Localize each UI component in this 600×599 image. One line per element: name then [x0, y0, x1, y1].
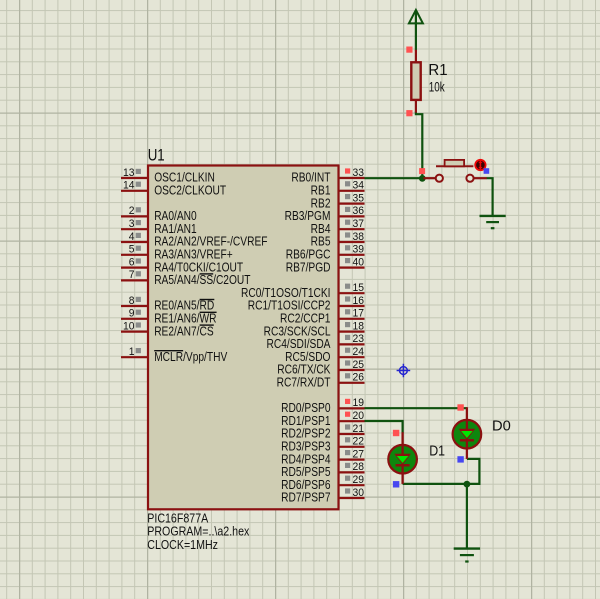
- svg-text:4: 4: [129, 231, 135, 243]
- svg-text:RB2: RB2: [311, 197, 331, 210]
- svg-text:U1: U1: [148, 147, 165, 165]
- pin 26 end square: [345, 373, 350, 378]
- pin 25 end square: [345, 360, 350, 365]
- wire power arrow to R1 top: [415, 22, 417, 51]
- pin 38 end square: [345, 232, 350, 237]
- wire R1 bottom to node A (jog): [416, 112, 422, 179]
- IC U1 PIC16F877A body: [148, 166, 339, 510]
- svg-text:6: 6: [129, 256, 135, 268]
- svg-text:RA2/AN2/VREF-/CVREF: RA2/AN2/VREF-/CVREF: [154, 236, 267, 249]
- svg-text:RD0/PSP0: RD0/PSP0: [281, 402, 330, 415]
- svg-text:CLOCK=1MHz: CLOCK=1MHz: [147, 537, 218, 552]
- svg-text:28: 28: [353, 461, 365, 473]
- svg-text:RA5/AN4/SS/C2OUT: RA5/AN4/SS/C2OUT: [154, 274, 250, 287]
- pin 40 stub (right): [339, 267, 365, 269]
- node B junction dot: [464, 481, 471, 488]
- svg-text:26: 26: [353, 371, 365, 383]
- svg-text:RD3/PSP3: RD3/PSP3: [281, 441, 330, 454]
- svg-text:RB1: RB1: [311, 185, 331, 198]
- pin 35 stub (right): [339, 203, 365, 205]
- svg-text:17: 17: [353, 307, 365, 319]
- svg-text:18: 18: [353, 320, 365, 332]
- svg-text:RD5/PSP5: RD5/PSP5: [281, 466, 330, 479]
- pin 34 end square: [345, 181, 350, 186]
- pin 10 stub (left): [121, 331, 148, 333]
- pin 34 stub (right): [339, 190, 365, 192]
- svg-text:RC5/SDO: RC5/SDO: [285, 351, 330, 364]
- pin 16 stub (right): [339, 305, 365, 307]
- svg-text:2: 2: [129, 205, 135, 217]
- pin 33 stub (right): [339, 177, 365, 179]
- svg-text:RB5: RB5: [311, 236, 331, 249]
- pin 14 stub (left): [121, 190, 148, 192]
- svg-text:RA3/AN3/VREF+: RA3/AN3/VREF+: [154, 249, 233, 262]
- svg-text:27: 27: [353, 448, 365, 460]
- button interactive actuator icon: [475, 160, 485, 170]
- pin 3 stub (left): [121, 228, 148, 230]
- svg-text:RC2/CCP1: RC2/CCP1: [280, 313, 330, 326]
- svg-text:36: 36: [353, 205, 365, 217]
- wire node B to ground GND2: [466, 484, 468, 549]
- pin 20 end square: [345, 412, 350, 417]
- pin 15 stub (right): [339, 292, 365, 294]
- wire button right terminal to ground GND1: [487, 178, 493, 215]
- pin 40 end square: [345, 258, 350, 263]
- ground GND2: [454, 549, 480, 562]
- pin 2 stub (left): [121, 215, 148, 217]
- svg-text:RD4/PSP4: RD4/PSP4: [281, 453, 331, 466]
- svg-text:20: 20: [353, 410, 365, 422]
- svg-text:RC1/T1OSI/CCP2: RC1/T1OSI/CCP2: [248, 300, 331, 313]
- pin 19 stub (right): [339, 407, 365, 409]
- pin 17 end square: [345, 309, 350, 314]
- pin 6 stub (left): [121, 267, 148, 269]
- svg-text:RC6/TX/CK: RC6/TX/CK: [277, 364, 331, 377]
- D0 origin handle (red): [457, 404, 463, 410]
- svg-text:30: 30: [353, 487, 365, 499]
- pin 24 end square: [345, 348, 350, 353]
- svg-text:40: 40: [353, 256, 365, 268]
- resistor R1: [411, 50, 420, 113]
- svg-text:13: 13: [123, 167, 135, 179]
- pin 15 end square: [345, 284, 350, 289]
- pin 21 stub (right): [339, 433, 365, 435]
- pin 13 end square: [136, 169, 141, 174]
- pin 21 end square: [345, 424, 350, 429]
- pin 7 end square: [136, 271, 141, 276]
- svg-text:1: 1: [129, 346, 135, 358]
- svg-text:10k: 10k: [429, 80, 445, 95]
- U1 part/program/clock annotation: [147, 510, 249, 552]
- pin 7 stub (left): [121, 279, 148, 281]
- svg-text:21: 21: [353, 423, 365, 435]
- pin 24 stub (right): [339, 356, 365, 358]
- pin 5 end square: [136, 246, 141, 251]
- LED D0: [453, 407, 482, 459]
- pin 4 stub (left): [121, 241, 148, 243]
- svg-text:OSC1/CLKIN: OSC1/CLKIN: [154, 172, 215, 185]
- svg-text:38: 38: [353, 231, 365, 243]
- svg-text:RB0/INT: RB0/INT: [291, 172, 330, 185]
- pin 23 end square: [345, 335, 350, 340]
- svg-text:RE1/AN6/WR: RE1/AN6/WR: [154, 313, 216, 326]
- pin 28 stub (right): [339, 471, 365, 473]
- pin 17 stub (right): [339, 318, 365, 320]
- svg-text:RB6/PGC: RB6/PGC: [286, 249, 331, 262]
- svg-text:RC0/T1OSO/T1CKI: RC0/T1OSO/T1CKI: [241, 287, 331, 300]
- pin 8 stub (left): [121, 305, 148, 307]
- pin 26 stub (right): [339, 382, 365, 384]
- svg-text:39: 39: [353, 243, 365, 255]
- svg-text:RE2/AN7/CS: RE2/AN7/CS: [154, 325, 214, 338]
- pin 4 end square: [136, 233, 141, 238]
- svg-text:16: 16: [353, 295, 365, 307]
- svg-text:15: 15: [353, 282, 365, 294]
- svg-text:RC4/SDI/SDA: RC4/SDI/SDA: [266, 338, 330, 351]
- svg-text:RD7/PSP7: RD7/PSP7: [281, 492, 330, 505]
- svg-text:24: 24: [353, 346, 365, 358]
- pin 1 end square: [136, 348, 141, 353]
- svg-text:10: 10: [123, 320, 135, 332]
- svg-text:D1: D1: [429, 443, 445, 459]
- pin 29 end square: [345, 476, 350, 481]
- node A junction dot: [419, 175, 426, 182]
- wire node B to LED D1 cathode: [403, 483, 467, 485]
- wire pin RD1/PSP1 to LED D1 anode: [365, 421, 403, 433]
- pin 29 stub (right): [339, 484, 365, 486]
- pin 27 stub (right): [339, 459, 365, 461]
- svg-text:OSC2/CLKOUT: OSC2/CLKOUT: [154, 185, 226, 198]
- svg-text:33: 33: [353, 167, 365, 179]
- pin 35 end square: [345, 194, 350, 199]
- svg-text:RB4: RB4: [311, 223, 331, 236]
- pin 39 end square: [345, 245, 350, 250]
- U1 left pin names: [154, 172, 267, 364]
- pin 19 end square: [345, 399, 350, 404]
- svg-text:RD6/PSP6: RD6/PSP6: [281, 479, 330, 492]
- svg-text:3: 3: [129, 218, 135, 230]
- pin 18 end square: [345, 322, 350, 327]
- svg-text:22: 22: [353, 435, 365, 447]
- svg-text:37: 37: [353, 218, 365, 230]
- svg-text:23: 23: [353, 333, 365, 345]
- pin 6 end square: [136, 258, 141, 263]
- pin 33 end square: [345, 168, 350, 173]
- pin 22 end square: [345, 437, 350, 442]
- svg-text:RA0/AN0: RA0/AN0: [154, 210, 197, 223]
- svg-text:RD2/PSP2: RD2/PSP2: [281, 428, 330, 441]
- pin 2 end square: [136, 207, 141, 212]
- D0 handle (blue): [457, 456, 463, 462]
- pin 1 stub (left): [121, 356, 148, 358]
- svg-text:RB7/PGD: RB7/PGD: [286, 261, 331, 274]
- pin 3 end square: [136, 220, 141, 225]
- pin 30 end square: [345, 488, 350, 493]
- R1 handle (bottom): [406, 110, 412, 116]
- svg-text:8: 8: [129, 295, 135, 307]
- push button switch: [423, 160, 486, 182]
- power symbol (VCC arrow): [409, 10, 423, 24]
- U1 right pin names: [241, 172, 331, 505]
- svg-text:25: 25: [353, 359, 365, 371]
- svg-text:RC7/RX/DT: RC7/RX/DT: [277, 377, 331, 390]
- svg-text:7: 7: [129, 269, 135, 281]
- svg-text:34: 34: [353, 179, 365, 191]
- pin 14 end square: [136, 182, 141, 187]
- pin 16 end square: [345, 296, 350, 301]
- pin 25 stub (right): [339, 369, 365, 371]
- D1 origin handle (red): [393, 430, 399, 436]
- pin 39 stub (right): [339, 254, 365, 256]
- svg-text:RD1/PSP1: RD1/PSP1: [281, 415, 330, 428]
- pin 37 stub (right): [339, 228, 365, 230]
- pin 20 stub (right): [339, 420, 365, 422]
- wire pin RD0/PSP0 to LED D0 anode: [365, 407, 467, 409]
- pin 22 stub (right): [339, 446, 365, 448]
- svg-text:9: 9: [129, 307, 135, 319]
- R1 origin handle (top): [406, 47, 412, 53]
- LED D1: [388, 432, 417, 484]
- svg-text:R1: R1: [428, 62, 447, 79]
- pin 9 stub (left): [121, 318, 148, 320]
- svg-text:RA1/AN1: RA1/AN1: [154, 223, 197, 236]
- svg-text:29: 29: [353, 474, 365, 486]
- wire pin RB0/INT to node A: [365, 177, 423, 179]
- pin 13 stub (left): [121, 177, 148, 179]
- svg-text:5: 5: [129, 243, 135, 255]
- svg-text:RE0/AN5/RD: RE0/AN5/RD: [154, 300, 214, 313]
- pin 18 stub (right): [339, 331, 365, 333]
- svg-text:35: 35: [353, 192, 365, 204]
- ground GND1: [480, 216, 506, 228]
- pin 27 end square: [345, 450, 350, 455]
- svg-text:RC3/SCK/SCL: RC3/SCK/SCL: [264, 325, 331, 338]
- U1 right pin numbers: [353, 167, 365, 499]
- svg-text:RA4/T0CKI/C1OUT: RA4/T0CKI/C1OUT: [154, 261, 243, 274]
- pin 36 end square: [345, 207, 350, 212]
- svg-text:RB3/PGM: RB3/PGM: [285, 210, 331, 223]
- button origin handle (red): [419, 168, 425, 174]
- pin 28 end square: [345, 463, 350, 468]
- pin 36 stub (right): [339, 215, 365, 217]
- pin 9 end square: [136, 310, 141, 315]
- svg-text:D0: D0: [492, 418, 511, 434]
- svg-text:19: 19: [353, 397, 365, 409]
- pin 5 stub (left): [121, 254, 148, 256]
- pin 30 stub (right): [339, 497, 365, 499]
- pin 37 end square: [345, 220, 350, 225]
- pin 38 stub (right): [339, 241, 365, 243]
- sheet origin marker: [397, 364, 411, 378]
- pin 8 end square: [136, 297, 141, 302]
- U1 left pin numbers: [123, 167, 135, 359]
- svg-text:14: 14: [123, 179, 135, 191]
- pin 23 stub (right): [339, 343, 365, 345]
- wire LED D0 cathode to node B: [467, 459, 480, 484]
- svg-text:MCLR/Vpp/THV: MCLR/Vpp/THV: [154, 351, 227, 364]
- D1 handle (blue): [393, 481, 399, 487]
- button handle (blue): [484, 168, 490, 174]
- pin 10 end square: [136, 322, 141, 327]
